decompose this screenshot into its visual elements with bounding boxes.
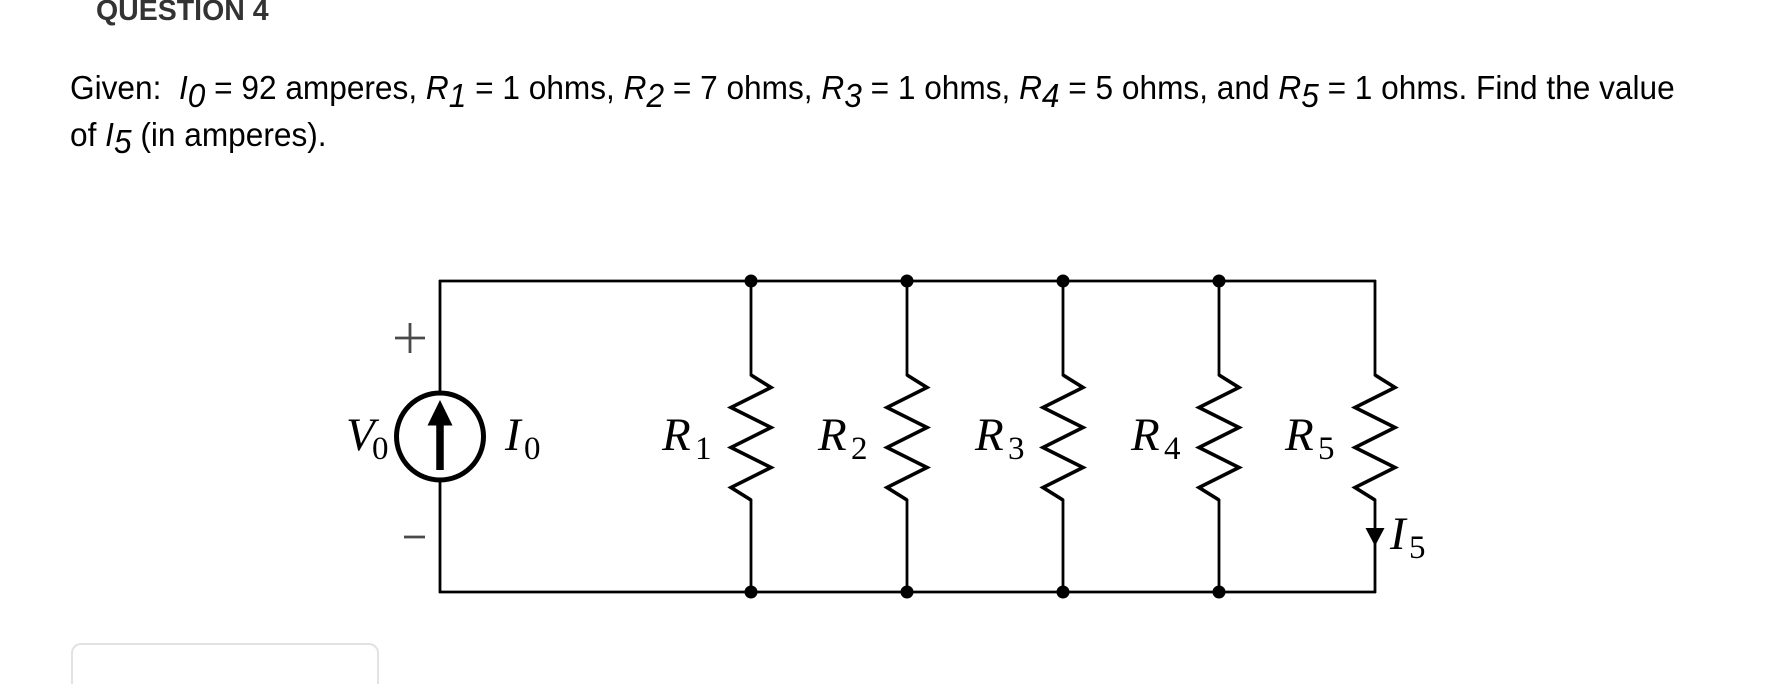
junction dot R1 top — [745, 275, 758, 288]
svg-text:5: 5 — [1409, 530, 1426, 566]
svg-text:3: 3 — [1008, 431, 1025, 467]
junction dot R4 top — [1213, 275, 1226, 288]
I5 current arrowhead — [1366, 528, 1385, 546]
wire: R5 branch top (right side) — [1374, 280, 1377, 376]
label R3 — [974, 409, 1025, 467]
wire: R5 branch bottom — [1374, 499, 1377, 593]
svg-text:2: 2 — [851, 431, 868, 467]
svg-text:0: 0 — [372, 431, 389, 467]
junction dot R2 top — [901, 275, 914, 288]
wire: left branch top segment — [439, 280, 442, 394]
resistor R1 zigzag — [731, 375, 771, 500]
wire: R1 branch bottom — [750, 499, 753, 592]
wire: top rail — [439, 280, 1376, 283]
junction dot R4 bottom — [1213, 586, 1226, 599]
wire: left branch bottom segment — [439, 479, 442, 593]
label I5 — [1389, 508, 1426, 566]
label R4 — [1130, 409, 1181, 467]
heading QUESTION 4 — [96, 0, 269, 28]
resistor R4 zigzag — [1199, 375, 1239, 500]
junction dot R3 bottom — [1057, 586, 1070, 599]
wire: R4 branch bottom — [1218, 499, 1221, 592]
plus sign — [395, 323, 425, 353]
svg-text:4: 4 — [1164, 431, 1181, 467]
current source arrow — [428, 400, 453, 470]
wire: R2 branch top — [906, 281, 909, 376]
svg-text:R: R — [1130, 409, 1160, 461]
svg-text:R: R — [1284, 409, 1314, 461]
label R1 — [661, 409, 712, 467]
junction dot R1 bottom — [745, 586, 758, 599]
label V0 — [346, 409, 389, 467]
svg-text:R: R — [974, 409, 1004, 461]
wire: R4 branch top — [1218, 281, 1221, 376]
wire: R3 branch bottom — [1062, 499, 1065, 592]
svg-text:R: R — [661, 409, 691, 461]
label R5 — [1284, 409, 1335, 467]
junction dot R3 top — [1057, 275, 1070, 288]
label I0 — [504, 409, 541, 467]
svg-text:R: R — [817, 409, 847, 461]
resistor R2 zigzag — [887, 375, 927, 500]
svg-text:0: 0 — [524, 431, 541, 467]
label R2 — [817, 409, 868, 467]
svg-text:1: 1 — [695, 431, 712, 467]
wire: R2 branch bottom — [906, 499, 909, 592]
resistor R5 zigzag — [1355, 375, 1395, 500]
answer input box — [71, 643, 379, 684]
resistor R3 zigzag — [1043, 375, 1083, 500]
wire: R3 branch top — [1062, 281, 1065, 376]
problem text — [70, 65, 1675, 158]
svg-text:5: 5 — [1318, 431, 1335, 467]
svg-text:I: I — [1389, 508, 1408, 560]
wire: R1 branch top — [750, 281, 753, 376]
svg-text:I: I — [504, 409, 523, 461]
current source V0/I0 circle — [397, 393, 484, 480]
minus sign — [404, 536, 425, 539]
junction dot R2 bottom — [901, 586, 914, 599]
wire: bottom rail — [439, 591, 1376, 594]
